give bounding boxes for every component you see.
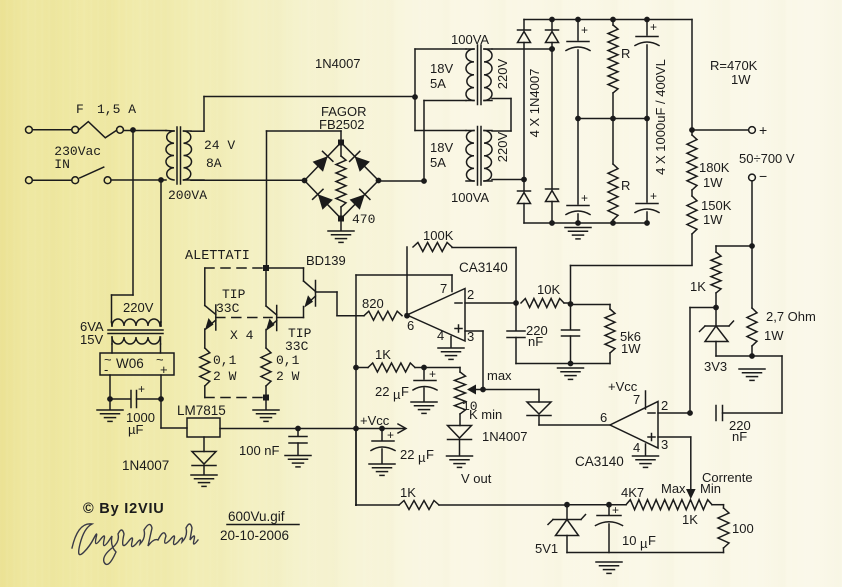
svg-text:5V1: 5V1 (535, 541, 558, 556)
svg-text:0,1: 0,1 (213, 353, 237, 368)
svg-text:10K: 10K (537, 282, 560, 297)
svg-text:+: + (581, 191, 588, 205)
svg-text:50÷700 V: 50÷700 V (739, 151, 795, 166)
svg-text:1K: 1K (375, 347, 391, 362)
svg-text:15V: 15V (80, 332, 103, 347)
svg-text:Max: Max (661, 481, 686, 496)
svg-text:10: 10 (622, 533, 636, 548)
svg-text:+: + (387, 428, 394, 442)
svg-text:CA3140: CA3140 (575, 454, 624, 469)
svg-text:18V: 18V (430, 140, 453, 155)
svg-text:+: + (650, 20, 657, 34)
svg-text:3: 3 (661, 437, 668, 452)
svg-text:2: 2 (467, 287, 474, 302)
svg-text:150K: 150K (701, 198, 732, 213)
svg-text:7: 7 (440, 281, 447, 296)
svg-text:820: 820 (362, 296, 384, 311)
svg-text:4 X 1N4007: 4 X 1N4007 (527, 69, 542, 138)
svg-text:20-10-2006: 20-10-2006 (220, 528, 289, 543)
svg-text:R: R (621, 178, 630, 193)
svg-text:nF: nF (732, 429, 747, 444)
svg-text:−: − (759, 168, 767, 184)
svg-text:F: F (76, 102, 84, 117)
svg-text:F: F (648, 533, 656, 548)
svg-text:nF: nF (528, 334, 543, 349)
svg-text:2: 2 (661, 398, 668, 413)
svg-text:200VA: 200VA (168, 188, 207, 203)
svg-text:1K: 1K (682, 512, 698, 527)
svg-text:1W: 1W (731, 72, 751, 87)
svg-text:7: 7 (633, 392, 640, 407)
svg-text:5A: 5A (430, 76, 446, 91)
svg-text:220V: 220V (495, 58, 510, 89)
svg-text:33C: 33C (285, 339, 309, 354)
svg-text:+: + (759, 122, 767, 138)
svg-text:18V: 18V (430, 61, 453, 76)
svg-text:5A: 5A (430, 155, 446, 170)
svg-text:180K: 180K (699, 160, 730, 175)
svg-text:© By I2VIU: © By I2VIU (83, 501, 165, 517)
svg-text:-: - (104, 362, 108, 377)
svg-text:1N4007: 1N4007 (315, 56, 361, 71)
svg-text:6: 6 (600, 410, 607, 425)
svg-text:BD139: BD139 (306, 253, 346, 268)
svg-text:600Vu.gif: 600Vu.gif (228, 509, 285, 524)
svg-text:3V3: 3V3 (704, 359, 727, 374)
svg-text:max: max (487, 368, 512, 383)
svg-text:F: F (401, 384, 409, 399)
svg-text:1,5 A: 1,5 A (97, 102, 136, 117)
svg-text:1N4007: 1N4007 (122, 458, 169, 473)
svg-text:4 X 1000uF / 400VL: 4 X 1000uF / 400VL (653, 59, 668, 175)
svg-text:100VA: 100VA (451, 190, 489, 205)
svg-text:µ: µ (418, 450, 426, 465)
svg-text:µ: µ (393, 387, 401, 402)
svg-text:22: 22 (400, 447, 414, 462)
svg-text:33C: 33C (216, 301, 240, 316)
svg-text:220V: 220V (495, 131, 510, 162)
svg-text:8A: 8A (206, 156, 222, 171)
svg-text:1K: 1K (400, 485, 416, 500)
svg-text:100K: 100K (423, 228, 454, 243)
svg-text:24 V: 24 V (204, 138, 235, 153)
svg-text:µ: µ (640, 536, 648, 551)
svg-text:1W: 1W (621, 341, 641, 356)
svg-text:Min: Min (700, 481, 721, 496)
svg-text:+: + (650, 189, 657, 203)
svg-text:+: + (429, 367, 436, 381)
svg-text:1W: 1W (764, 328, 784, 343)
svg-text:2 W: 2 W (213, 369, 237, 384)
svg-text:X 4: X 4 (230, 328, 254, 343)
svg-text:+Vcc: +Vcc (360, 413, 390, 428)
svg-text:1W: 1W (703, 175, 723, 190)
svg-text:V out: V out (461, 471, 492, 486)
svg-text:1W: 1W (703, 212, 723, 227)
svg-text:2 W: 2 W (276, 369, 300, 384)
svg-text:100: 100 (732, 521, 754, 536)
svg-text:22: 22 (375, 384, 389, 399)
svg-text:CA3140: CA3140 (459, 260, 508, 275)
svg-text:6: 6 (407, 318, 414, 333)
svg-text:R: R (621, 46, 630, 61)
svg-text:R=470K: R=470K (710, 58, 758, 73)
svg-text:F: F (426, 447, 434, 462)
svg-text:LM7815: LM7815 (177, 403, 226, 418)
svg-text:4: 4 (633, 440, 640, 455)
svg-text:0,1: 0,1 (276, 353, 300, 368)
svg-text:100 nF: 100 nF (239, 443, 280, 458)
svg-text:µF: µF (128, 422, 143, 437)
svg-text:4K7: 4K7 (621, 485, 644, 500)
svg-text:+: + (138, 382, 145, 396)
svg-text:FB2502: FB2502 (319, 117, 365, 132)
svg-text:100VA: 100VA (451, 32, 489, 47)
svg-text:IN: IN (54, 157, 70, 172)
svg-text:+: + (581, 23, 588, 37)
svg-text:1K: 1K (690, 279, 706, 294)
svg-text:2,7 Ohm: 2,7 Ohm (766, 309, 816, 324)
svg-text:W06: W06 (116, 356, 144, 371)
svg-text:K min: K min (469, 407, 502, 422)
svg-text:1N4007: 1N4007 (482, 429, 528, 444)
svg-text:220V: 220V (123, 300, 154, 315)
svg-text:4: 4 (437, 328, 444, 343)
svg-text:470: 470 (352, 212, 375, 227)
svg-text:ALETTATI: ALETTATI (185, 249, 250, 264)
svg-text:TIP: TIP (222, 287, 246, 302)
